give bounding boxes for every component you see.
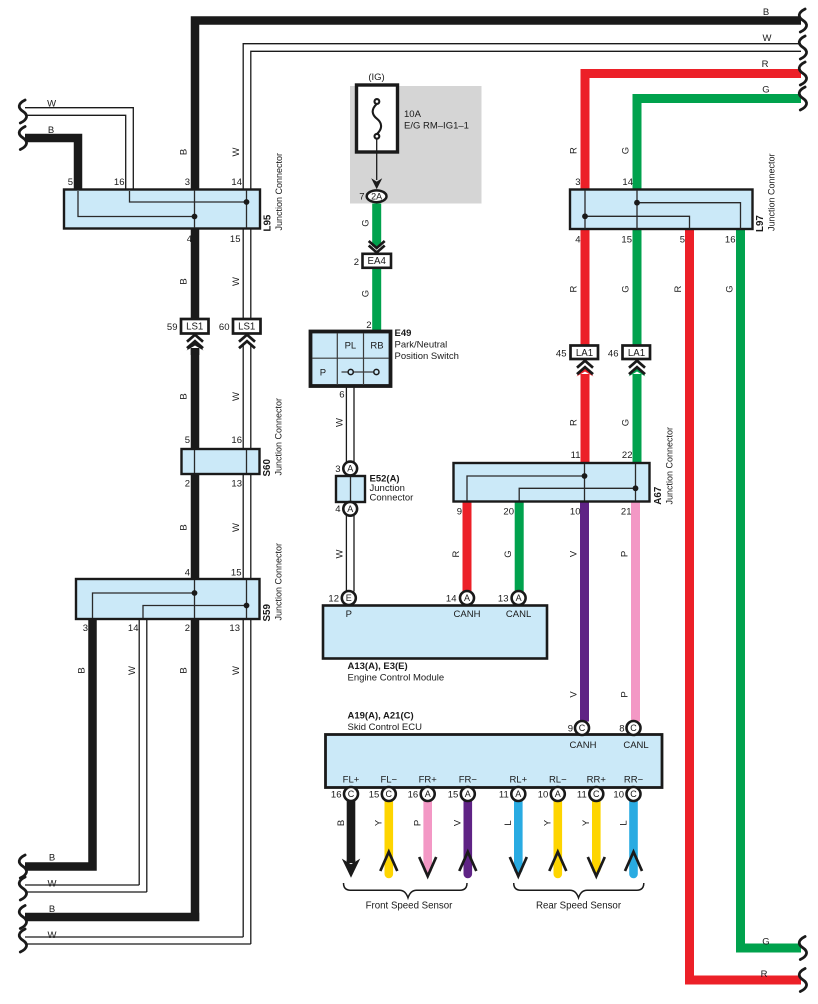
svg-text:59: 59 xyxy=(167,322,178,333)
svg-text:(IG): (IG) xyxy=(368,72,384,83)
svg-text:B: B xyxy=(763,7,769,18)
svg-text:13: 13 xyxy=(229,623,240,634)
svg-text:V: V xyxy=(568,550,579,557)
svg-text:P: P xyxy=(346,609,352,620)
svg-text:E: E xyxy=(346,593,352,603)
svg-text:FR+: FR+ xyxy=(419,775,438,786)
svg-text:4: 4 xyxy=(185,568,190,579)
svg-text:21: 21 xyxy=(621,507,632,518)
svg-text:A: A xyxy=(515,789,521,799)
svg-text:A: A xyxy=(516,593,522,603)
svg-text:PL: PL xyxy=(345,341,357,352)
svg-text:W: W xyxy=(231,666,242,675)
svg-text:15: 15 xyxy=(621,235,632,246)
svg-text:G: G xyxy=(361,290,372,297)
svg-text:RB: RB xyxy=(370,341,383,352)
svg-text:R: R xyxy=(673,285,684,292)
svg-text:C: C xyxy=(593,789,600,799)
svg-text:R: R xyxy=(762,59,769,70)
svg-text:Engine Control Module: Engine Control Module xyxy=(348,672,445,683)
svg-text:G: G xyxy=(762,85,769,96)
svg-text:P: P xyxy=(619,691,630,697)
svg-text:C: C xyxy=(630,789,637,799)
svg-text:W: W xyxy=(48,930,57,941)
svg-text:10A: 10A xyxy=(404,109,422,120)
svg-text:46: 46 xyxy=(608,349,619,360)
svg-text:S59: S59 xyxy=(262,604,273,622)
svg-text:S60: S60 xyxy=(262,459,273,477)
svg-text:8: 8 xyxy=(619,723,624,734)
svg-text:FL−: FL− xyxy=(380,775,397,786)
svg-text:L95: L95 xyxy=(262,214,273,231)
svg-text:B: B xyxy=(179,524,190,530)
svg-text:5: 5 xyxy=(185,435,190,446)
svg-text:Rear Speed Sensor: Rear Speed Sensor xyxy=(536,901,622,912)
svg-text:B: B xyxy=(49,904,55,915)
svg-text:C: C xyxy=(386,789,393,799)
svg-text:Junction Connector: Junction Connector xyxy=(274,543,284,621)
svg-text:Skid Control ECU: Skid Control ECU xyxy=(348,722,423,733)
svg-text:R: R xyxy=(569,419,580,426)
svg-text:E/G RM–IG1–1: E/G RM–IG1–1 xyxy=(404,121,469,132)
svg-text:B: B xyxy=(179,149,190,155)
svg-text:W: W xyxy=(48,879,57,890)
svg-text:Junction Connector: Junction Connector xyxy=(665,427,675,505)
svg-text:9: 9 xyxy=(568,723,573,734)
svg-text:Front Speed Sensor: Front Speed Sensor xyxy=(366,901,453,912)
svg-text:C: C xyxy=(630,723,637,733)
svg-text:A: A xyxy=(347,464,353,474)
svg-text:B: B xyxy=(179,278,190,284)
svg-text:60: 60 xyxy=(219,322,230,333)
svg-text:G: G xyxy=(621,147,632,154)
svg-text:CANL: CANL xyxy=(506,609,531,620)
svg-text:W: W xyxy=(231,277,242,286)
svg-text:20: 20 xyxy=(503,507,514,518)
svg-text:G: G xyxy=(361,219,372,226)
svg-text:Y: Y xyxy=(543,819,554,826)
svg-text:15: 15 xyxy=(231,568,242,579)
svg-text:V: V xyxy=(453,819,464,826)
svg-text:FL+: FL+ xyxy=(343,775,360,786)
svg-text:B: B xyxy=(48,125,54,136)
svg-text:22: 22 xyxy=(622,450,633,461)
svg-text:RL+: RL+ xyxy=(509,775,527,786)
svg-text:G: G xyxy=(621,285,632,292)
svg-text:Connector: Connector xyxy=(370,493,414,504)
svg-text:Junction Connector: Junction Connector xyxy=(767,153,777,231)
svg-text:3: 3 xyxy=(83,623,88,634)
svg-text:R: R xyxy=(569,285,580,292)
svg-text:R: R xyxy=(761,969,768,980)
svg-text:11: 11 xyxy=(571,450,581,461)
svg-text:4: 4 xyxy=(335,504,340,515)
svg-text:Y: Y xyxy=(374,819,385,826)
svg-text:5: 5 xyxy=(68,177,73,188)
svg-text:14: 14 xyxy=(231,177,242,188)
svg-text:C: C xyxy=(579,723,586,733)
svg-text:5: 5 xyxy=(680,235,685,246)
svg-text:CANH: CANH xyxy=(570,740,597,751)
svg-text:A13(A), E3(E): A13(A), E3(E) xyxy=(348,661,408,672)
svg-text:4: 4 xyxy=(187,234,192,245)
svg-text:LA1: LA1 xyxy=(576,348,593,359)
svg-text:B: B xyxy=(179,393,190,399)
svg-text:15: 15 xyxy=(448,789,459,800)
svg-text:Junction Connector: Junction Connector xyxy=(274,398,284,476)
svg-text:14: 14 xyxy=(128,623,139,634)
svg-text:V: V xyxy=(568,691,579,698)
svg-text:RR+: RR+ xyxy=(587,775,607,786)
svg-text:RR−: RR− xyxy=(624,775,644,786)
svg-text:L97: L97 xyxy=(755,215,766,232)
svg-text:10: 10 xyxy=(570,507,581,518)
svg-text:10: 10 xyxy=(538,789,549,800)
svg-text:B: B xyxy=(179,667,190,673)
svg-text:EA4: EA4 xyxy=(368,256,387,267)
svg-text:2: 2 xyxy=(366,320,371,331)
svg-text:E49: E49 xyxy=(395,328,412,339)
svg-text:W: W xyxy=(231,523,242,532)
svg-text:L: L xyxy=(503,820,514,825)
svg-text:P: P xyxy=(619,551,630,557)
svg-text:W: W xyxy=(127,666,138,675)
svg-text:G: G xyxy=(621,419,632,426)
svg-text:13: 13 xyxy=(498,593,509,604)
svg-text:W: W xyxy=(231,392,242,401)
svg-text:16: 16 xyxy=(331,789,342,800)
svg-text:W: W xyxy=(231,147,242,156)
svg-text:Y: Y xyxy=(581,819,592,826)
svg-text:3: 3 xyxy=(335,464,340,475)
svg-text:45: 45 xyxy=(556,349,567,360)
svg-text:15: 15 xyxy=(369,789,380,800)
svg-text:A: A xyxy=(425,789,431,799)
svg-text:A: A xyxy=(555,789,561,799)
svg-text:14: 14 xyxy=(622,177,633,188)
svg-text:9: 9 xyxy=(457,507,462,518)
svg-text:B: B xyxy=(336,820,347,826)
svg-text:2: 2 xyxy=(354,257,359,268)
svg-text:3: 3 xyxy=(185,177,190,188)
svg-text:B: B xyxy=(49,853,55,864)
svg-text:14: 14 xyxy=(446,593,457,604)
svg-text:A: A xyxy=(464,593,470,603)
svg-text:Position Switch: Position Switch xyxy=(395,351,459,362)
svg-text:R: R xyxy=(569,147,580,154)
svg-text:G: G xyxy=(762,937,769,948)
svg-text:15: 15 xyxy=(230,234,241,245)
svg-text:Park/Neutral: Park/Neutral xyxy=(395,339,448,350)
svg-text:G: G xyxy=(725,285,736,292)
svg-text:CANL: CANL xyxy=(623,740,648,751)
svg-text:6: 6 xyxy=(339,389,344,400)
svg-text:12: 12 xyxy=(328,593,339,604)
svg-text:R: R xyxy=(451,550,462,557)
svg-text:LS1: LS1 xyxy=(186,322,203,333)
svg-text:LS1: LS1 xyxy=(238,322,255,333)
svg-text:FR−: FR− xyxy=(459,775,478,786)
svg-text:LA1: LA1 xyxy=(628,348,645,359)
svg-text:11: 11 xyxy=(577,789,587,800)
svg-text:16: 16 xyxy=(725,235,736,246)
svg-text:W: W xyxy=(334,549,345,558)
svg-text:A19(A), A21(C): A19(A), A21(C) xyxy=(348,710,414,721)
svg-text:4: 4 xyxy=(575,235,580,246)
svg-text:A: A xyxy=(465,789,471,799)
svg-text:G: G xyxy=(503,550,514,557)
svg-text:Junction Connector: Junction Connector xyxy=(274,153,284,231)
svg-text:2: 2 xyxy=(185,623,190,634)
svg-text:CANH: CANH xyxy=(454,609,481,620)
svg-text:7: 7 xyxy=(359,192,364,203)
svg-text:W: W xyxy=(334,418,345,427)
svg-text:10: 10 xyxy=(613,789,624,800)
svg-text:P: P xyxy=(413,820,424,826)
svg-text:16: 16 xyxy=(231,435,242,446)
svg-text:RL−: RL− xyxy=(549,775,567,786)
svg-text:A67: A67 xyxy=(653,486,664,505)
svg-text:13: 13 xyxy=(231,479,242,490)
svg-text:A: A xyxy=(347,504,353,514)
svg-text:11: 11 xyxy=(499,789,509,800)
svg-text:2A: 2A xyxy=(371,192,382,202)
svg-text:L: L xyxy=(618,820,629,825)
svg-text:W: W xyxy=(47,98,56,109)
svg-text:16: 16 xyxy=(408,789,419,800)
svg-text:W: W xyxy=(763,33,772,44)
svg-text:3: 3 xyxy=(575,177,580,188)
svg-text:C: C xyxy=(348,789,355,799)
svg-text:16: 16 xyxy=(114,177,125,188)
svg-text:P: P xyxy=(320,368,326,379)
svg-text:2: 2 xyxy=(185,479,190,490)
svg-text:B: B xyxy=(76,667,87,673)
